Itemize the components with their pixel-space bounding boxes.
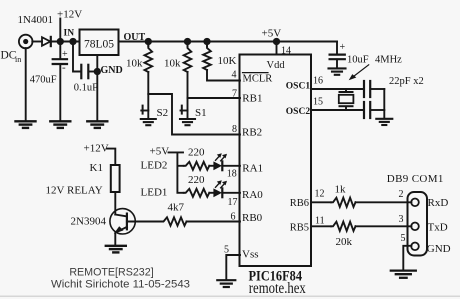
ground below Q1 xyxy=(106,246,126,253)
svg-text:1N4001: 1N4001 xyxy=(18,14,53,26)
svg-text:5: 5 xyxy=(401,233,406,244)
node rail R2 xyxy=(185,39,190,44)
crystal X1 4MHz xyxy=(339,89,354,110)
resistor R5 220 xyxy=(184,162,210,170)
wire C5 to ground rail xyxy=(371,109,385,111)
ground below S1 xyxy=(180,119,195,125)
svg-text:11: 11 xyxy=(315,216,325,227)
svg-text:0.1uF: 0.1uF xyxy=(74,82,98,93)
capacitor C1 470uF xyxy=(53,49,68,74)
diode D1 1N4001 xyxy=(42,37,51,46)
resistor R8 20k xyxy=(331,222,356,231)
connector J1 DC input jack xyxy=(19,35,33,49)
wire OSC2 pin15 xyxy=(311,109,364,111)
svg-text:10k: 10k xyxy=(126,57,143,69)
svg-text:+5V: +5V xyxy=(262,28,282,40)
wire R2 stub xyxy=(187,42,189,47)
wire +12V to relay xyxy=(107,149,115,165)
svg-text:12V RELAY: 12V RELAY xyxy=(46,184,103,196)
label MCLR with overline xyxy=(243,73,273,85)
svg-text:22pF x2: 22pF x2 xyxy=(389,76,424,87)
wire to C1 top xyxy=(59,42,61,59)
wire +12V drop xyxy=(59,19,61,42)
wire R7 to DB9 pin2 xyxy=(356,201,412,203)
svg-text:10K: 10K xyxy=(218,55,237,67)
svg-text:RB6: RB6 xyxy=(290,198,309,209)
svg-text:+5V: +5V xyxy=(150,146,170,158)
label DCin xyxy=(1,50,22,65)
ground below caps xyxy=(376,119,392,125)
svg-text:2N3904: 2N3904 xyxy=(71,216,107,228)
resistor R7 1k xyxy=(331,198,356,207)
svg-text:+: + xyxy=(340,42,346,53)
ground below S2 xyxy=(141,119,156,125)
switch S1 xyxy=(181,98,188,119)
capacitor C5 22pF xyxy=(364,102,370,118)
resistor R2 10k xyxy=(184,46,192,72)
capacitor C2 0.1uF xyxy=(81,65,88,78)
svg-text:Vss: Vss xyxy=(242,248,259,260)
resistor R4 4k7 xyxy=(162,217,187,225)
pin 2 circle xyxy=(411,199,419,207)
svg-text:10k: 10k xyxy=(164,58,181,70)
svg-text:LED2: LED2 xyxy=(141,160,168,172)
wire OSC1 pin16 xyxy=(311,88,364,90)
wire C1 to ground xyxy=(59,65,61,121)
wire RB6 to R7 xyxy=(311,201,331,203)
wire R4 to RB0 xyxy=(187,221,241,223)
svg-text:OSC1: OSC1 xyxy=(286,82,311,92)
svg-text:RxD: RxD xyxy=(428,197,449,209)
border bottom edge xyxy=(0,295,460,297)
svg-text:K1: K1 xyxy=(90,162,103,174)
svg-text:RB2: RB2 xyxy=(242,126,262,138)
transistor Q1 2N3904 xyxy=(110,209,135,234)
op IC U1 PIC16F84 outline xyxy=(240,55,312,267)
svg-text:20k: 20k xyxy=(336,236,353,248)
svg-text:-: - xyxy=(62,62,66,74)
svg-text:DB9 COM1: DB9 COM1 xyxy=(387,173,444,185)
led LED1 xyxy=(209,180,240,197)
svg-text:3: 3 xyxy=(399,214,404,225)
svg-text:Wichit Sirichote 11-05-2543: Wichit Sirichote 11-05-2543 xyxy=(51,279,190,291)
svg-text:GND: GND xyxy=(101,65,123,76)
wire RB5 to R8 xyxy=(311,225,331,227)
svg-text:5: 5 xyxy=(224,244,229,255)
svg-text:10uF: 10uF xyxy=(347,55,369,66)
svg-text:REMOTE[RS232]: REMOTE[RS232] xyxy=(69,266,153,278)
svg-text:Vdd: Vdd xyxy=(267,60,286,71)
ground below C1 xyxy=(50,121,70,128)
svg-text:RA0: RA0 xyxy=(242,189,263,201)
svg-text:17: 17 xyxy=(228,197,238,208)
svg-text:16: 16 xyxy=(313,75,323,86)
svg-text:+: + xyxy=(62,49,68,60)
node rail R1 xyxy=(146,39,151,44)
node junction at C1 xyxy=(58,39,63,44)
svg-text:220: 220 xyxy=(188,147,205,159)
node junction at IN xyxy=(70,39,75,44)
wire C4 to ground rail xyxy=(371,88,385,90)
ground below C3 xyxy=(329,68,346,74)
connector J2 DB9 body xyxy=(408,192,428,256)
svg-text:S1: S1 xyxy=(195,107,207,119)
svg-text:RB0: RB0 xyxy=(242,212,263,224)
wire jack to diode xyxy=(32,41,42,43)
wire rail end down to C3 xyxy=(336,42,338,55)
relay K1 coil xyxy=(111,165,120,192)
svg-text:in: in xyxy=(15,55,21,64)
capacitor C4 22pF xyxy=(364,81,370,97)
ground below DB9 xyxy=(391,271,416,278)
svg-text:+12V: +12V xyxy=(84,143,109,155)
wire C2 to GND node xyxy=(89,71,98,73)
capacitor C3 10uF xyxy=(330,42,346,59)
wire +5V led rail xyxy=(169,152,184,192)
svg-text:MCLR: MCLR xyxy=(243,73,273,84)
pin 3 circle xyxy=(411,223,419,231)
svg-text:14: 14 xyxy=(281,46,291,57)
regulator U2 78L05 xyxy=(80,30,119,56)
svg-text:LED1: LED1 xyxy=(141,187,168,199)
svg-text:12: 12 xyxy=(315,188,325,199)
svg-text:remote.hex: remote.hex xyxy=(249,280,306,297)
svg-text:S2: S2 xyxy=(157,107,169,119)
wire C3 to ground xyxy=(336,60,338,68)
svg-text:1k: 1k xyxy=(335,184,347,196)
node rail R3 xyxy=(204,39,209,44)
svg-text:TxD: TxD xyxy=(428,221,448,233)
ground below jack xyxy=(16,121,36,128)
switch S2 xyxy=(141,94,148,119)
wire regulator GND pin xyxy=(96,55,98,121)
svg-text:IN: IN xyxy=(64,29,75,39)
wire R8 to DB9 pin3 xyxy=(356,225,412,227)
svg-text:4MHz: 4MHz xyxy=(375,55,402,66)
node +5V xyxy=(274,39,279,44)
resistor R3 10K xyxy=(203,46,211,70)
svg-text:220: 220 xyxy=(188,174,205,186)
wire base xyxy=(127,221,162,223)
svg-text:GND: GND xyxy=(427,243,451,255)
wire R3 to MCLR xyxy=(207,70,240,81)
svg-text:7: 7 xyxy=(232,88,237,99)
svg-text:4: 4 xyxy=(232,70,237,81)
wire +5V rail xyxy=(119,41,338,43)
led LED2 xyxy=(209,153,240,170)
wire emitter to ground xyxy=(114,233,116,245)
node GND junction xyxy=(95,69,100,74)
svg-text:RB5: RB5 xyxy=(290,222,309,233)
wire C2 branch xyxy=(73,42,81,72)
ground below regulator xyxy=(87,121,107,128)
wire R3 stub xyxy=(206,42,208,47)
resistor R6 220 xyxy=(184,189,210,197)
svg-text:2: 2 xyxy=(399,189,404,200)
svg-text:RA1: RA1 xyxy=(242,162,263,174)
wire R1 to RB2 jog xyxy=(148,72,240,135)
wire R2 to RB1 xyxy=(188,72,241,98)
wire R1 stub xyxy=(147,42,149,47)
svg-text:4k7: 4k7 xyxy=(168,202,185,214)
svg-text:8: 8 xyxy=(232,124,237,135)
resistor R1 10k xyxy=(145,46,153,72)
svg-text:OSC2: OSC2 xyxy=(286,107,311,117)
wire DB9 pin5 to ground xyxy=(403,246,411,270)
svg-text:470uF: 470uF xyxy=(30,74,57,85)
wire diode to regulator IN xyxy=(52,41,80,43)
svg-text:78L05: 78L05 xyxy=(84,39,114,51)
wire Vss to ground xyxy=(226,255,240,280)
pin 5 circle xyxy=(411,243,419,251)
svg-text:RB1: RB1 xyxy=(242,92,262,104)
wire relay to collector xyxy=(114,192,116,215)
ground below Vss xyxy=(217,280,235,287)
wire ground of jack xyxy=(25,48,27,120)
arrow 4MHz to crystal xyxy=(349,65,369,80)
wire caps ground drop xyxy=(383,89,385,118)
svg-text:15: 15 xyxy=(313,97,323,108)
wire Vdd pin 14 stub xyxy=(276,42,278,55)
svg-text:18: 18 xyxy=(227,168,237,179)
